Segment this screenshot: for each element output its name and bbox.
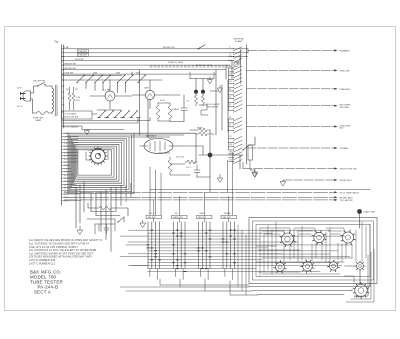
cascade switch lever 24 (229, 148, 243, 152)
wire output line SCREEN (247, 147, 336, 149)
svg-text:-.63 V: -.63 V (64, 133, 70, 135)
transformer T1 primary winding (52, 88, 54, 113)
svg-text:50: 50 (229, 117, 231, 119)
cascade switch lever 18 (229, 121, 243, 125)
switch S20 lever (243, 145, 249, 150)
wire cluster links (158, 95, 184, 122)
cascade switch lever 7 (229, 74, 243, 78)
wire mid connectors (126, 70, 218, 138)
label box FIL voltage (62, 111, 93, 119)
switch bank group 4 bottom drops (225, 269, 233, 280)
neon lamp NE2 (201, 90, 205, 94)
switch bank group 3 top link (203, 219, 205, 222)
switch S2 on bus line 1 (198, 45, 205, 49)
resistor R9 below NE2 (201, 96, 204, 106)
wire left resistor leads (70, 87, 74, 110)
svg-text:4.7 V: 4.7 V (64, 159, 69, 161)
svg-text:3TF7: 3TF7 (149, 138, 155, 140)
svg-text:7.5 V: 7.5 V (64, 168, 69, 170)
cascade switch lever 21 (229, 136, 243, 140)
cascade switch lever 12 (229, 93, 243, 97)
svg-text:2.5A: 2.5A (64, 46, 69, 49)
svg-text:SPST N.O. MOM: SPST N.O. MOM (196, 65, 212, 67)
switch bank contact dashes (147, 230, 235, 271)
wire switch to transformer (45, 86, 52, 88)
ground symbol mid 2 (252, 169, 257, 177)
socket field outer shield rect (249, 218, 377, 284)
svg-text:S3B: S3B (116, 73, 121, 75)
neon lamp NE1 (194, 90, 198, 94)
svg-text:RANGE SW: RANGE SW (65, 62, 76, 65)
capacitor C3 lower-left (104, 224, 109, 234)
arrowhead FILAMENT (334, 49, 337, 51)
switch bank group 3 header box (197, 215, 213, 218)
wire step lower-left (62, 126, 124, 130)
svg-text:25 V: 25 V (64, 188, 69, 190)
switch bank group 4 verticals (223, 222, 235, 269)
potentiometer line adjust (234, 62, 238, 66)
wire bank-socket gap verticals (238, 225, 246, 295)
cascade switch lever 4 (229, 58, 243, 62)
wire bank grid row 11 (148, 259, 262, 261)
AC plug P1 (23, 91, 31, 101)
wire rotary nest inner arcs (86, 150, 108, 160)
cascade switch lever 8 (229, 78, 243, 82)
svg-text:LAST R NUMBER R48: LAST R NUMBER R48 (29, 259, 56, 262)
switch S8 lever (126, 76, 133, 83)
resistor R3 vertical (156, 103, 160, 121)
svg-text:PLATE: PLATE (224, 212, 231, 215)
resistor R8 below NE1 (194, 96, 197, 106)
svg-text:9.1: 9.1 (229, 89, 231, 91)
wire rotary nest loop 7 (75, 144, 119, 181)
cascade switch lever 9 (229, 81, 243, 85)
svg-text:S3A: S3A (93, 72, 98, 75)
rotary switch SW1 wafer (91, 149, 105, 163)
tube socket V6 9-pin (303, 262, 313, 272)
svg-text:SELECTOR SW: SELECTOR SW (63, 117, 78, 119)
svg-text:117: 117 (229, 136, 232, 138)
svg-text:2.0 V: 2.0 V (64, 146, 69, 148)
wire bank grid row 2 (148, 232, 272, 234)
ballast tube V1 internal elements (140, 141, 177, 151)
svg-text:SEL SW: SEL SW (198, 217, 206, 219)
wire rotary nest loop 8 (76, 146, 117, 179)
cascade switch lever 1 (229, 47, 243, 51)
wire short test drop (250, 160, 255, 170)
wire lamp leads (196, 79, 203, 96)
wire bank grid row 8 (148, 250, 338, 252)
socket field inner rect 1 (253, 221, 374, 280)
ground symbol step (84, 130, 89, 135)
wire lamp top rail (190, 72, 214, 79)
svg-text:PUSH TO TEST: PUSH TO TEST (168, 62, 184, 64)
svg-text:25: 25 (229, 104, 231, 106)
arrowhead NOISE TEST (334, 179, 337, 181)
svg-text:SHORT TEST SW: SHORT TEST SW (340, 169, 357, 171)
svg-text:1.1 V: 1.1 V (64, 140, 69, 142)
arrowhead GRID CAP (334, 69, 337, 71)
wire bank grid row 4 (148, 238, 260, 240)
wire output line RECTIFIER (247, 105, 336, 107)
wire mid lower links (158, 153, 240, 177)
wire top bus line 6 (62, 69, 226, 71)
svg-text:117 V: 117 V (64, 200, 70, 202)
tube socket V5 7-pin (276, 263, 285, 272)
svg-text:2 AMP: 2 AMP (35, 119, 42, 122)
svg-text:0-1 MA: 0-1 MA (103, 89, 110, 92)
capacitor C1 (181, 103, 187, 116)
wire fuse to primary (51, 112, 54, 114)
svg-text:GRID CAP: GRID CAP (340, 69, 351, 72)
svg-text:TOP CAP SW: TOP CAP SW (340, 199, 353, 202)
svg-text:7 PIN: 7 PIN (354, 297, 360, 299)
wire bank grid row 1 (128, 229, 330, 231)
svg-text:117V: 117V (17, 88, 22, 90)
wire bank group feed verticals (154, 192, 229, 215)
tube socket V7 7-pin (329, 262, 337, 270)
svg-text:12.6 V: 12.6 V (64, 178, 71, 180)
wire plug to switch (31, 86, 38, 93)
svg-text:LINE SW: LINE SW (65, 72, 74, 74)
meter M2 (145, 90, 154, 99)
wire top bus line 1 (62, 48, 248, 50)
junction dot main node (208, 153, 213, 158)
wire socket routing loop 2 (295, 228, 315, 234)
svg-text:100 V AC: 100 V AC (75, 58, 84, 61)
wire bank grid row 3 (148, 235, 345, 237)
pilot socket X1 pins (355, 261, 366, 272)
wire long line top cap (64, 199, 336, 201)
wire output line FILAMENT (248, 50, 336, 52)
wire Z link (199, 105, 208, 115)
switch S14 lever lower row (122, 111, 130, 118)
cascade switch lever 5 (229, 66, 243, 70)
transformer tap stubs (62, 80, 64, 126)
resistor R6 (185, 160, 197, 164)
ground symbol mid 1 (217, 174, 222, 182)
wire bank to socket bottom link (160, 279, 258, 295)
switch bank group 1 header box (146, 215, 162, 218)
wire top bus line 2 (62, 52, 248, 54)
wire nest right extensions (130, 133, 196, 163)
switch bank group 2 bottom drops (175, 269, 183, 280)
wire rotary nest loop 10 (78, 150, 112, 175)
svg-text:TEST ADJ: TEST ADJ (340, 106, 350, 109)
wire switch row drops (86, 72, 132, 93)
rotary switch SW1 contacts (89, 147, 107, 165)
switch S11 lever lower row (98, 111, 106, 118)
resistor R7 lower-left (96, 206, 114, 210)
wire 7pin wrap routing (344, 249, 374, 302)
svg-text:ALL CONTROLS AT FULL CW EXCEPT: ALL CONTROLS AT FULL CW EXCEPT AS NOTED … (29, 249, 97, 252)
svg-text:2.35 V: 2.35 V (64, 149, 71, 151)
wire rotary nest loop 2 (69, 135, 131, 191)
wire plug lower to fuse (31, 99, 33, 113)
socket field inner rect 2 (256, 225, 370, 277)
switch bank group 2 header box (172, 215, 188, 218)
ground symbol bank left (140, 220, 146, 227)
switch S9 lever (138, 76, 145, 83)
wire bank grid row 6 (148, 244, 352, 246)
wire cascade bus vertical (246, 45, 248, 164)
svg-text:4.7: 4.7 (229, 74, 231, 76)
arrowhead RECTIFIER (334, 105, 337, 107)
svg-text:150: 150 (229, 144, 232, 146)
wire socket routing loop 1 (260, 228, 290, 234)
svg-text:200: 200 (229, 152, 232, 154)
cascade switch lever 2 (229, 51, 243, 55)
wire socket routing verticals (260, 222, 370, 286)
sens cluster resistors (196, 128, 210, 136)
switch bank group 2 verticals (174, 222, 186, 269)
switch bank group 3 verticals (199, 222, 211, 269)
switch bank group 1 top link (153, 219, 155, 222)
wire bank grid row 12 (148, 262, 330, 264)
svg-text:S3C: S3C (136, 73, 141, 75)
label box top bus 1 (78, 49, 89, 52)
switch S5 lever (95, 76, 102, 83)
svg-text:6.3: 6.3 (229, 81, 231, 83)
switch bank group 1 verticals (148, 222, 160, 269)
wire socket bottom bus 2 (252, 290, 352, 291)
wire top bus line 4 (62, 60, 232, 62)
wire lower-left links (88, 203, 128, 222)
wire left lower feed (96, 215, 120, 251)
svg-text:3.15 V: 3.15 V (64, 152, 71, 154)
svg-text:METER JACK: METER JACK (340, 196, 354, 199)
svg-text:INDICATOR: INDICATOR (207, 105, 219, 108)
wire socket bottom bus 1 (249, 283, 370, 287)
wire top bus line 5 (62, 64, 230, 66)
wire long line meter jack (64, 196, 336, 198)
arrowhead GRID TEST (334, 125, 337, 127)
svg-text:SECT A: SECT A (34, 290, 51, 295)
dashed line push to test (150, 66, 230, 68)
wire bank grid row 10 (148, 256, 350, 258)
wire long run y189 (150, 189, 370, 191)
svg-text:ALL RESIST VALUES ARE SHOWN IN: ALL RESIST VALUES ARE SHOWN IN OHMS AND … (29, 239, 102, 242)
arrowhead SCREEN (334, 147, 337, 149)
resistor R11 vertical left (72, 93, 75, 104)
cascade switch lever 16 (229, 108, 243, 112)
wire socket bottom bus 3 (258, 294, 344, 296)
cascade switch lever 25 (229, 152, 243, 156)
svg-text:11 V: 11 V (64, 175, 69, 177)
wire meter M2 leads (132, 80, 166, 108)
svg-text:LINE 117V AC 60 CPS NOMINAL SU: LINE 117V AC 60 CPS NOMINAL SUPPLY (29, 246, 78, 249)
svg-text:SEL SW: SEL SW (223, 217, 231, 219)
svg-text:1/4 AMP: 1/4 AMP (235, 40, 243, 43)
cascade switch lever 17 (229, 117, 243, 121)
svg-text:2.5A 250V: 2.5A 250V (78, 50, 87, 53)
wire mid vertical risers (216, 80, 228, 135)
svg-text:Fig.: Fig. (55, 41, 59, 44)
svg-text:NOISE TEST: NOISE TEST (340, 180, 353, 182)
svg-text:SCREEN: SCREEN (340, 148, 349, 150)
svg-text:R21 100: R21 100 (176, 157, 185, 159)
switch S13 lever lower row (114, 111, 122, 118)
cascade switch lever 26 (229, 156, 243, 160)
wire sens leads (190, 130, 214, 134)
wire output line SHORT TEST SW (243, 168, 336, 170)
arrow symbol down 2 (218, 86, 223, 93)
svg-text:15: 15 (229, 97, 231, 99)
tube socket V8 7-pin (355, 284, 367, 296)
svg-text:-.75 V: -.75 V (64, 136, 70, 138)
svg-text:SEL SW: SEL SW (148, 217, 156, 219)
wire rotary nest loop 9 (77, 148, 114, 177)
wire lower-left mesh (87, 212, 115, 235)
svg-text:ADJ: ADJ (340, 127, 344, 130)
wire lower switch partial bus (92, 110, 141, 118)
wire rotary nest loop 4 (71, 139, 126, 188)
switch bank group 4 top link (228, 219, 230, 222)
ground symbol lower-left (77, 226, 83, 234)
svg-text:FIL -: FIL - (175, 213, 180, 215)
resistor R10 vertical left (68, 93, 71, 104)
svg-text:PLATE CAP: PLATE CAP (364, 211, 376, 214)
svg-text:6.3 V: 6.3 V (64, 165, 69, 167)
svg-text:LINE: LINE (144, 88, 149, 90)
wire lower row links (62, 118, 150, 124)
cascade switch lever 23 (229, 144, 243, 148)
switch S21 lower-left lever (118, 217, 124, 222)
wire switch row bus (62, 76, 162, 81)
svg-text:2.5A 250V: 2.5A 250V (78, 54, 87, 57)
svg-text:FILAMENT: FILAMENT (340, 50, 351, 53)
wire bank grid row 5 (128, 241, 298, 243)
cascade switch lever 20 (229, 129, 243, 133)
wire bank grid row 13 (128, 265, 342, 267)
svg-text:70: 70 (229, 125, 231, 127)
svg-text:50 V: 50 V (64, 194, 69, 196)
svg-text:15 V: 15 V (64, 181, 69, 183)
wire lower-left long runs (76, 182, 84, 228)
svg-text:FIL VOLTAGE: FIL VOLTAGE (63, 113, 77, 116)
svg-text:60 CY: 60 CY (17, 106, 23, 108)
svg-text:CATH SW: CATH SW (173, 216, 182, 219)
tube socket V4 octal (342, 232, 353, 243)
wire bank grid row 15 (148, 271, 320, 273)
switch bank group 3 bottom drops (200, 269, 208, 280)
wire meter M1 leads (90, 80, 126, 109)
cascade switch lever 14 (229, 101, 243, 105)
svg-text:1.4 V: 1.4 V (64, 143, 69, 145)
svg-text:9.1 V: 9.1 V (64, 172, 69, 174)
wire top bus line 3 (62, 56, 248, 58)
switch S12 lever lower row (106, 111, 114, 118)
wire output line NOISE TEST (283, 179, 336, 181)
wire bank grid row 9 (128, 253, 282, 255)
switch bank group 4 header box (221, 215, 237, 218)
wire nest drop verticals (91, 183, 131, 215)
ground symbol noise test (280, 180, 286, 186)
wire label column stubs (62, 133, 78, 162)
switch S7 lever (118, 76, 125, 83)
svg-text:PILOT LAMP JACKS: PILOT LAMP JACKS (340, 191, 360, 194)
wire mid-right verticals (228, 152, 244, 215)
label box top bus 2 (78, 53, 89, 56)
ground symbol short test (252, 170, 258, 176)
wire S20 line (230, 137, 255, 155)
svg-text:ALL SWITCHES SHOWN IN OFF POSI: ALL SWITCHES SHOWN IN OFF POSITION SEE T… (29, 252, 94, 255)
svg-text:PLATE ADJ: PLATE ADJ (340, 88, 351, 91)
switch bank group 1 bottom drops (150, 269, 158, 280)
wire socket routing horizontals (256, 246, 352, 274)
transformer T1 secondary winding bus (62, 45, 64, 205)
switch S3 lever (77, 76, 84, 83)
svg-text:1.4: 1.4 (229, 54, 231, 56)
wire pilot socket link (345, 266, 360, 283)
tube socket V3 octal (314, 232, 324, 242)
wire label column lower stubs (62, 165, 81, 200)
resistor R5 vertical mid (168, 157, 172, 175)
svg-text:LAST C NUMBER C12: LAST C NUMBER C12 (29, 262, 56, 265)
svg-text:VOLTAGES MEASURED WITH ANALYZE: VOLTAGES MEASURED WITH ANALYZER MAY VARY (29, 256, 92, 259)
svg-text:METER SW: METER SW (65, 68, 76, 70)
svg-text:PA-244-B: PA-244-B (38, 284, 59, 289)
wire long line pilot lamp (64, 191, 336, 193)
wire bank left feeds (120, 236, 148, 266)
cascade switch lever 22 (229, 140, 243, 144)
component box short test (248, 145, 253, 160)
svg-text:2.3: 2.3 (229, 66, 231, 68)
svg-text:INTERLOCK: INTERLOCK (163, 47, 176, 49)
cascade switch lever 13 (229, 97, 243, 101)
wire cascade tie vertical (229, 49, 241, 150)
svg-text:C4 .1: C4 .1 (186, 167, 192, 169)
wire bottom left extension (120, 287, 205, 291)
wire bank grid row 14 (148, 268, 256, 270)
wire top bus line 7 (62, 73, 216, 75)
wire nest to bank verticals (150, 167, 161, 215)
arrowhead PLATE ADJ (334, 88, 337, 90)
wire socket routing loop 3 (326, 228, 344, 234)
pilot socket X1 (357, 263, 364, 270)
svg-text:.6: .6 (229, 47, 230, 49)
svg-text:ALL VOLTAGES TO CHASSIS GND W: ALL VOLTAGES TO CHASSIS GND WITH VTVM AT (29, 243, 90, 246)
dashed line push to test (150, 65, 230, 67)
switch S15 lever lower row (130, 111, 138, 118)
wire rotary nest loop 5 (72, 141, 124, 186)
svg-text:5.0 V: 5.0 V (64, 162, 69, 164)
rotary switch SW1 hub (95, 153, 100, 158)
svg-text:3.3K: 3.3K (76, 97, 81, 99)
fuse F1 (33, 112, 53, 115)
cascade switch lever 27 (229, 160, 243, 164)
cascade switch lever 11 (229, 89, 243, 93)
wire output line PLATE ADJ (247, 88, 336, 90)
tube socket V2 octal (282, 233, 294, 245)
wire rotary nest loop 3 (70, 137, 129, 190)
cascade switch lever 3 (229, 55, 243, 59)
cascade switch lever 15 (229, 104, 243, 108)
svg-text:ON-OFF SW: ON-OFF SW (33, 81, 45, 83)
switch S6 lever (103, 76, 110, 83)
svg-text:1 MEG: 1 MEG (172, 109, 179, 111)
plate cap terminal (357, 209, 362, 214)
svg-text:SENS: SENS (197, 128, 203, 130)
svg-text:19 V: 19 V (64, 184, 69, 186)
switch S4 lever (86, 76, 93, 83)
resistor R4 vertical (168, 103, 172, 121)
power switch S1 ON-OFF (38, 83, 45, 87)
wire output line GRID CAP (247, 69, 336, 71)
cascade switch lever 19 (229, 125, 243, 129)
wire rotary nest loop 6 (74, 142, 122, 183)
svg-text:4.2 V: 4.2 V (64, 156, 69, 158)
